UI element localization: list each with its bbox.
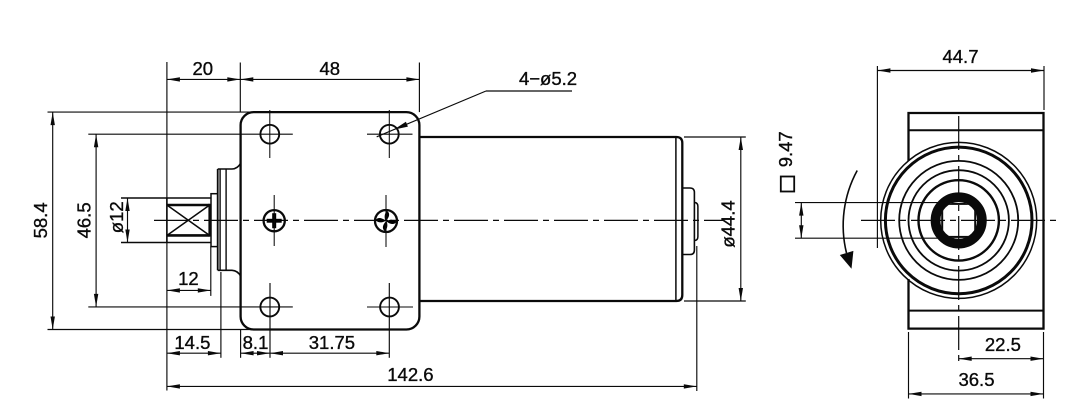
boss front face line 2 (219, 169, 221, 270)
svg-text:58.4: 58.4 (30, 202, 51, 238)
ext line y329.5 (58.4 bottom) (48, 329, 253, 331)
ext line x270 (holes/8.1-31.75) (269, 283, 271, 358)
circle r40.2 (919, 180, 999, 260)
screw left cross horizontal bar (267, 219, 282, 223)
screw right pinwheel (374, 209, 399, 233)
ext line x877.4 (44.7 left) (876, 66, 878, 248)
svg-text:48: 48 (320, 58, 341, 79)
ext line x1044 top (44.7 right) (1043, 66, 1045, 110)
screw left (264, 210, 285, 231)
dim line 58.4 (52, 112, 54, 329)
dim line 48 (240, 78, 419, 80)
right view top lip line (909, 129, 1044, 131)
hole bottom-left (260, 298, 279, 317)
boss top edge with fillet (218, 163, 241, 169)
ext line y306.9 (46.5 bottom) (88, 306, 292, 308)
svg-text:12: 12 (178, 268, 199, 289)
ext line x220.9 (14.5 right) (220, 272, 222, 358)
motor end cap seam (675, 138, 677, 301)
leader 4-o5.2 (486, 90, 572, 92)
ext line y137 (o44.4 top) (684, 136, 746, 138)
knurl X diagonal 2 (167, 205, 209, 235)
svg-text:142.6: 142.6 (387, 364, 433, 385)
ext line x908.5 bottom (908, 332, 910, 399)
shaft left tip edge (166, 198, 168, 243)
dim line 8.1 (241, 352, 270, 354)
svg-text:44.7: 44.7 (942, 46, 978, 67)
circle r59.5 (899, 161, 1018, 280)
dim line 142.6 (167, 385, 697, 387)
svg-text:4−ø5.2: 4−ø5.2 (519, 68, 577, 89)
shaft OD top line (121, 197, 211, 199)
svg-text:31.75: 31.75 (309, 332, 355, 353)
dim line 9.47 (800, 203, 802, 239)
ext line x210.8 (12 right) (210, 247, 212, 296)
svg-text:ø12: ø12 (106, 201, 127, 233)
circle r50.2 (909, 170, 1009, 270)
ext line y301 (o44.4 bottom) (684, 300, 746, 302)
dim line 14.5 (167, 352, 221, 354)
right view vertical centerline (958, 116, 960, 364)
end bump inner (694, 203, 698, 241)
gearbox face plate (241, 112, 420, 329)
square drive hole (942, 204, 975, 237)
ext line x240.6 bottom (8.1 left) (240, 330, 242, 358)
knurl X diagonal 1 (167, 205, 209, 235)
extension line x240.3 top (239, 63, 241, 113)
dim 20/48 extension line at x166.9 (166, 62, 168, 391)
hole TR vertical centerline (388, 110, 390, 158)
right view body outline (909, 113, 1044, 329)
right view horizontal centerline (861, 219, 1057, 221)
right view bottom lip line (909, 310, 1044, 312)
ext line x1043.5 bottom (1043, 332, 1045, 399)
hole BR horizontal centerline (367, 306, 413, 308)
screw left cross vertical bar (272, 213, 276, 228)
svg-text:36.5: 36.5 (958, 369, 994, 390)
dim line 44.7 (877, 70, 1044, 72)
dim line 12 (167, 289, 211, 291)
ext line x389.3 (31.75 right) (388, 283, 390, 358)
hole top-right (380, 125, 399, 144)
hole top-left (260, 125, 279, 144)
ext line y238.2 (9.47 bottom) (795, 237, 946, 239)
knurl bottom thick line (167, 234, 210, 237)
svg-text:9.47: 9.47 (775, 131, 796, 167)
dim line 46.5 (95, 134, 97, 307)
svg-text:14.5: 14.5 (174, 332, 210, 353)
rotation arc arrow (843, 171, 857, 254)
dim line 22.5 (959, 358, 1044, 360)
circle outer thin (881, 142, 1037, 298)
dim line 20 (167, 78, 240, 80)
ext line y202.6 (9.47 top) (795, 202, 946, 204)
shaft washer (211, 194, 218, 247)
ext line y112.1 (58.4 top) (48, 111, 253, 113)
hole TL vertical centerline (269, 110, 271, 158)
knurl top thick line (167, 204, 210, 207)
svg-text:22.5: 22.5 (985, 334, 1021, 355)
hole bottom-right (380, 298, 399, 317)
ext line x696.8 (142.6 right) (696, 246, 698, 391)
shaft OD bottom line (121, 242, 211, 244)
boss front face line 1 (217, 169, 219, 270)
dim line o12 (127, 198, 129, 243)
screw right vertical centerline (385, 195, 387, 247)
motor body outline (419, 137, 682, 301)
extension line x419.4 top (418, 63, 420, 113)
knurl right thick edge (208, 204, 211, 237)
circle outer thick (885, 147, 1032, 294)
dim line 36.5 (909, 393, 1044, 395)
shaft bore black ring (936, 197, 982, 243)
hole TR horizontal centerline (367, 133, 413, 135)
ext line y134.2 (46.5 top) (88, 133, 292, 135)
boss inner step line (225, 169, 227, 270)
svg-text:ø44.4: ø44.4 (718, 200, 739, 247)
boss bottom edge with fillet (218, 270, 241, 276)
end bump outer (683, 188, 695, 255)
square symbol (781, 177, 794, 192)
centerline left view (154, 219, 725, 221)
screw right (375, 210, 397, 232)
dim line o44.4 (740, 137, 742, 301)
svg-text:46.5: 46.5 (73, 202, 94, 238)
screw left vertical centerline (273, 195, 275, 246)
svg-text:8.1: 8.1 (243, 332, 269, 353)
svg-text:20: 20 (193, 58, 214, 79)
dim line 31.75 (270, 352, 389, 354)
